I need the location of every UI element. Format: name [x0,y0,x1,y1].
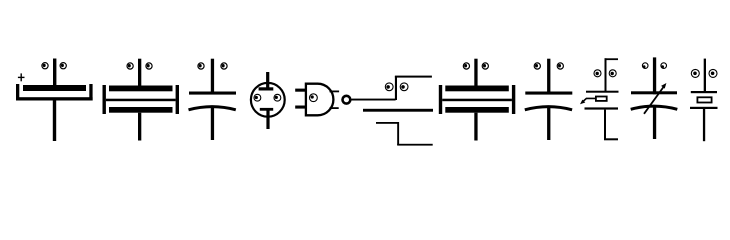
housing circle C4 [251,83,285,117]
capacitor C2 feed-through [103,59,180,141]
wire top lead C5 [474,59,477,86]
bottom plate C9 [690,107,718,109]
wire top branch C7 [605,58,619,60]
top plate C2 [109,86,173,92]
wire bottom lead C1 [53,101,56,142]
terminal circle C2 pin 1 [127,63,133,69]
dielectric box C9 [697,97,711,102]
wire top lead C7 [605,58,607,91]
capacitor C3 polarized (curved plate) [189,59,237,140]
middle electrode C2 [106,99,176,102]
right end bar C5 [512,85,515,114]
terminal circle C4 pin 1 [254,94,261,101]
wire top lead C4 [266,72,269,88]
wire top lead C9 [704,59,706,92]
left end bar C5 [439,85,442,114]
terminal circle C6 pin 1 [534,63,540,69]
wire bottom lead C5 [474,113,477,141]
output line U1 lower [330,107,339,109]
terminal circle C9 pin 2 [709,69,717,77]
top plate C5 [445,86,509,92]
wire top lead C1 [53,59,56,86]
wire vertical edge [395,76,397,100]
bottom plate C5 [445,107,509,113]
terminal circle right [400,83,408,91]
wire bottom branch C7 [604,138,618,140]
wire bottom lead C8 [653,106,656,139]
input stub U1 pin 1 [295,89,306,92]
wire top lead C6 [547,59,550,95]
bottom plate C2 [109,107,173,113]
curved bottom plate C3 [189,107,236,110]
dielectric box C7 [596,97,607,101]
terminal circle C6 pin 2 [557,63,563,69]
middle electrode C5 [442,99,512,102]
wire bottom lead C2 [138,113,141,141]
adjustment arrow C8 [644,83,666,114]
terminal circle C5 pin 1 [463,63,469,69]
wire bottom lead C7 [604,110,606,140]
terminal circle left [385,83,393,91]
terminal circle C2 pin 2 [146,63,152,69]
terminal circle C9 pin 1 [691,69,699,77]
wire bottom lead C6 [547,106,550,140]
gate body U1 [306,84,334,116]
capacitor C5 feed-through [439,59,516,141]
trimmer capacitor C7 preset [580,58,619,140]
top plate C4 [259,87,274,90]
bottom cup plate C1 [16,84,93,101]
wire bottom lead C9 [703,109,705,141]
capacitor C4 feed-through bushing in circular housing [251,72,285,129]
wire top lead C3 [211,59,214,95]
terminal circle C5 pin 2 [482,63,488,69]
top plate C8 [631,91,677,94]
plus polarity mark [18,73,25,81]
terminal circle C8 pin 1 [642,63,648,69]
wire top lead C2 [138,59,141,86]
curved bottom plate C8 [631,106,678,109]
pulse waveform falling edge [376,122,433,146]
left end bar C2 [103,85,106,114]
bottom plate C4 [260,108,273,111]
top plate C9 [691,91,717,93]
wire top lead C8 [653,57,656,94]
top plate C7 [586,91,619,93]
adjustment arrow C7 [580,98,595,104]
terminal circle C3 pin 2 [221,63,227,69]
bus bar [363,109,433,112]
input stub U1 pin 2 [295,106,306,109]
capacitor C1 polarized electrolytic (cup style) [16,59,93,142]
wire high level [376,122,399,124]
terminal circle C3 pin 1 [198,63,204,69]
terminal circle C4 pin 2 [274,94,281,101]
inverter bubble [343,96,351,104]
wire vertical edge [397,122,399,145]
terminal circle C7 pin 2 [609,70,616,77]
wire output net [351,99,395,101]
wire bottom lead C4 [266,111,269,130]
variable capacitor C8 [631,57,678,139]
wire bottom lead C3 [211,106,214,140]
nand gate U1 [295,84,339,116]
wire high level [395,76,432,78]
bottom plate C7 [585,107,619,109]
pulse waveform rising edge [385,76,432,100]
wire low level [397,144,433,146]
capacitor C9 with dielectric box [690,59,718,142]
capacitor C6 polarized (curved plate) [525,59,573,140]
top plate C1 [23,85,86,91]
top plate C6 [525,92,572,95]
terminal circle C1 pin 1 [42,63,48,69]
terminal circle C7 pin 1 [594,70,601,77]
terminal circle C1 pin 2 [60,63,66,69]
output line U1 upper [330,91,340,93]
right end bar C2 [176,85,179,114]
top plate C3 [189,92,236,95]
terminal circle U1 [310,94,318,102]
curved bottom plate C6 [525,107,572,110]
terminal circle C8 pin 2 [661,63,667,69]
